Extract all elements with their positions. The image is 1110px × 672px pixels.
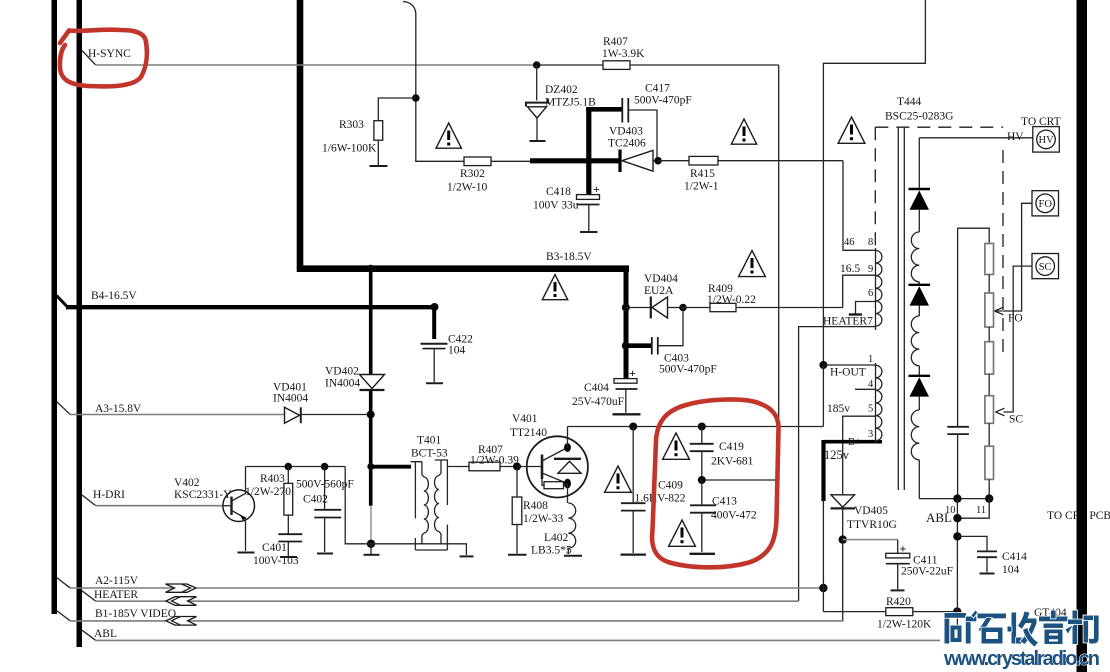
watermark char shou [1008,612,1039,647]
warning triangle near R302 [436,123,461,148]
svg-text:VD403: VD403 [609,126,643,138]
svg-text:125v: 125v [824,448,850,462]
ground bar C414 [980,573,995,575]
resistor R303 (1/6W-100K) [374,121,383,141]
wire H-SYNC diagonal tap [82,51,96,65]
svg-text:VD404: VD404 [644,273,678,285]
junction dot B3 rail / VD402 [367,265,375,273]
svg-text:ABL: ABL [94,628,117,640]
wire R420 left [823,611,885,613]
warning triangle near B3 [542,275,567,300]
wire flyback pin 5 stub and 185v riser [843,416,876,494]
svg-text:BCT-53: BCT-53 [411,448,448,460]
wire R303 bottom lead [377,140,379,165]
ground bar R303 [370,165,388,167]
junction dot VD405 output [839,535,847,543]
transformer T401 (BCT-53) [371,460,466,555]
wire feedback riser x=778 [778,65,780,480]
svg-text:1/2W-10: 1/2W-10 [447,182,487,194]
ground bar DZ402 [530,140,546,142]
svg-text:VD405: VD405 [854,505,888,517]
wire R407 to feedback riser [630,64,779,66]
svg-text:500V-470pF: 500V-470pF [659,364,717,376]
transistor V402 (KSC2331-Y) [223,467,255,552]
right edge thick bus bar [1077,0,1088,672]
wire A3-15.8V rail (gray) [70,414,285,416]
watermark char shi [978,614,1007,644]
diode VD401 (IN4004) [285,407,371,423]
svg-text:T444: T444 [897,96,922,108]
svg-text:1/2W-0.22: 1/2W-0.22 [707,294,756,306]
svg-text:11: 11 [976,505,986,516]
svg-text:FO: FO [1039,199,1053,210]
wire R302 to thick node [491,160,531,162]
svg-text:R420: R420 [886,596,911,608]
HV diode D3 [909,366,931,410]
capacitor C409 (1.6KV-822) [621,427,646,554]
resistor R420 (1/2W-120K) [886,608,913,616]
warning triangle near R415 [731,119,756,144]
connector FO [1032,191,1059,216]
svg-text:V402: V402 [174,477,200,489]
svg-text:R403: R403 [260,473,285,485]
svg-text:HV: HV [1039,135,1055,146]
svg-text:1/2W-1: 1/2W-1 [684,181,719,193]
arrow FO wiper [995,307,1004,315]
svg-text:SC: SC [1039,262,1052,273]
wire Rb-Rc [988,327,990,342]
junction dot R420/ABL [953,607,961,615]
arrow B1 (left) [166,617,197,626]
svg-text:C401: C401 [262,542,287,554]
wire ABL rail [96,639,941,641]
ground bar C422 [426,382,443,384]
inductor L402 (LB3.5*5) [568,503,575,554]
svg-text:B3-18.5V: B3-18.5V [546,251,592,263]
zener diode DZ402 [526,99,548,140]
warning triangle near C419 [663,433,690,459]
red annotation circle around C419/C413 [652,399,778,567]
capacitor C401 (100V-103) [278,534,302,556]
junction dot T401 drive node [367,463,374,470]
thick wire B+ down leg [821,440,825,501]
wire node to R409 [683,307,710,309]
svg-text:B1-185V VIDEO: B1-185V VIDEO [95,608,176,620]
svg-text:V401: V401 [512,413,538,425]
svg-text:1/6W-100K: 1/6W-100K [322,143,377,155]
capacitor C402 (500V-560pF) [314,467,341,553]
arrow HEATER (left) [166,597,197,606]
svg-text:500V-560pF: 500V-560pF [296,479,354,491]
resistor R302 (1/2W-10) [464,157,491,166]
junction dot C402 top [321,463,329,471]
ground bar C409 [621,553,647,555]
svg-text:H-DRI: H-DRI [93,489,125,501]
wire C411 top (gray) [843,539,898,541]
wire C422 top lead (thick) [432,307,436,339]
junction dot R408 top [513,463,521,471]
svg-text:100V-103: 100V-103 [253,555,299,567]
svg-text:TTVR10G: TTVR10G [847,519,897,531]
divider resistor Ra [985,244,994,275]
thick wire T401 primary stub [371,465,411,469]
svg-text:100V 33u: 100V 33u [533,200,579,212]
junction dot R303 node [412,94,420,102]
junction dot B3/VD404 branch [622,304,630,312]
wire feedback bottom to C419/C413 node [702,479,779,481]
wire B4-16.5V thick rail [66,305,435,309]
resistor R403 (1/2W-270) [284,467,293,534]
wire V401 collector rail to H-OUT [568,426,824,428]
bus bar 2 (left power bus) [77,0,83,647]
capacitor C411 (250V-22uF) electrolytic [886,540,910,590]
svg-text:1/2W-120K: 1/2W-120K [877,619,932,631]
terminal bar pin 6 [849,313,862,315]
resistor R409 (1/2W-0.22) [710,303,736,311]
wire FO tap [1003,203,1033,311]
ground bar L402 [564,555,582,557]
transistor V401 (TT2140) [527,427,588,504]
wire A2 diagonal tap [57,578,71,588]
svg-text:+: + [629,366,636,380]
wire VD403 node to R415 [658,160,689,162]
divider resistor Rd (screen pot) [985,396,994,424]
wire flyback pin 4 stub [855,388,876,390]
flyback core lines [898,128,904,490]
junction dot C409 top [629,423,637,431]
wire T401 secondary to R407 [448,466,469,468]
svg-text:www.crystalradio.cn: www.crystalradio.cn [943,648,1100,670]
svg-text:MTZJ5.1B: MTZJ5.1B [545,97,596,109]
resistor R408 (1/2W-33) [512,467,522,554]
svg-text:+: + [593,182,600,196]
svg-text:B+: B+ [848,437,861,448]
svg-text:1.6KV-822: 1.6KV-822 [635,493,686,505]
svg-text:2KV-681: 2KV-681 [711,456,754,468]
wire V402 collector rail [246,466,346,468]
junction dot ABL/C414 [953,532,961,540]
svg-text:TT2140: TT2140 [510,427,547,439]
junction dot C419/C413 [698,476,706,484]
svg-text:A3-15.8V: A3-15.8V [95,403,142,415]
red annotation circle around H-SYNC [60,30,147,87]
svg-text:9: 9 [868,264,873,275]
divider resistor Rc [985,342,994,374]
svg-text:IN4004: IN4004 [325,378,360,390]
svg-text:TC2406: TC2406 [608,138,646,150]
divider resistor Re [985,446,994,479]
svg-text:B4-16.5V: B4-16.5V [91,290,137,302]
svg-text:HEATER: HEATER [94,589,138,601]
svg-text:R302: R302 [460,168,485,180]
wire H-DRI diagonal tap [82,495,96,506]
svg-text:C419: C419 [719,441,744,453]
wire VD405 node to B1 bus riser [842,540,844,622]
wire A2-115V rail [70,587,823,589]
svg-text:3: 3 [868,429,873,440]
svg-text:5: 5 [868,404,873,415]
HV winding section 1 [911,232,919,282]
svg-text:EU2A: EU2A [644,285,674,297]
HV rectifier diode chain top lead [918,138,920,189]
divider resistor Rb (focus pot) [985,293,994,327]
capacitor C422 (104) [421,344,448,382]
HV winding section 2 [911,316,919,366]
wire H-OUT node to collector rail [822,365,824,427]
svg-text:H-OUT: H-OUT [830,367,866,379]
ground bar return node [364,554,380,556]
junction dot H-OUT node [819,361,827,369]
wire flyback pin 1 stub [823,364,876,366]
thick stub to C403 [626,343,651,348]
ground bar C413 [690,553,716,555]
thick wire VD402 to VD401 node [369,390,373,415]
warning triangle near C409 [605,466,632,492]
svg-text:HV: HV [1007,131,1024,143]
svg-text:A2-115V: A2-115V [95,575,139,587]
junction dot R403 top [285,463,293,471]
flyback secondary winding lower (pins 1-4-5-3) [876,363,882,443]
svg-text:1/2W-0.39: 1/2W-0.39 [470,455,519,467]
connector HV [1033,127,1060,153]
svg-text:C413: C413 [712,496,737,508]
wire flyback pin 8 stub [843,161,876,251]
svg-text:8: 8 [868,237,873,248]
svg-text:R407: R407 [603,36,628,48]
wire Re bottom [988,479,990,498]
watermark char ji [1066,611,1099,645]
ground bar C402 [317,553,333,555]
svg-text:1/2W-270: 1/2W-270 [245,486,291,498]
wire HEATER rail [96,600,799,602]
svg-text:DZ402: DZ402 [545,84,578,96]
resistor R407 (1W-3.9K) [603,61,630,70]
wire ABL diagonal tap [82,630,96,640]
wire top hook to R303 node [403,2,464,162]
diode VD403 (TC2406) [620,150,658,173]
wire B4 diagonal tap (thick) [57,296,68,307]
wire gray segment to primary return [370,506,372,544]
svg-text:R408: R408 [523,500,548,512]
ground bar C401 [280,556,297,558]
wire B1-185V rail [70,620,843,622]
watermark char kuang [945,611,978,644]
capacitor C418 (100V 33u) electrolytic [577,182,601,231]
junction dot pin 10 [953,494,961,502]
wire H-SYNC node to R407 [537,64,603,66]
svg-text:FO: FO [1008,313,1023,325]
arrow A2 (right) [166,584,197,592]
svg-text:LB3.5*5: LB3.5*5 [531,545,572,557]
thick B3 vertical wire to C404 [624,266,629,379]
wire R409 to flyback pin 9 riser [736,275,876,307]
wire R407 to V401 base [500,466,542,468]
svg-text:6: 6 [868,288,873,299]
svg-text:C414: C414 [1002,551,1027,563]
svg-text:L402: L402 [544,532,569,544]
thick wire node to T401 stub [369,415,373,506]
warning triangle near T444 [838,117,865,143]
wire A3 diagonal tap [57,402,71,415]
capacitor C404 (25V-470uF) electrolytic [614,366,638,413]
resistor R415 (1/2W-1) [689,156,718,165]
svg-text:IN4004: IN4004 [273,393,308,405]
wire DZ402 top lead [536,65,538,101]
svg-text:400V-472: 400V-472 [711,510,757,522]
svg-text:104: 104 [448,345,466,357]
ground bar C418 [580,231,598,233]
watermark char yin [1039,611,1068,645]
ground bar C404 [613,413,641,415]
capacitor C417 (500V-470pF) [622,98,657,161]
svg-text:1W-3.9K: 1W-3.9K [602,48,645,60]
svg-text:25V-470uF: 25V-470uF [572,396,624,408]
svg-text:SC: SC [1009,414,1023,426]
svg-text:16.5: 16.5 [840,263,860,275]
wire SC tap [1004,266,1033,412]
svg-text:VD402: VD402 [325,366,359,378]
junction dot pin 11 top [985,494,993,502]
capacitor C414 (104) [957,536,997,572]
HV diode D1 [909,189,931,232]
wire R420 right [913,611,957,613]
svg-text:KSC2331-Y: KSC2331-Y [174,489,232,501]
svg-text:C417: C417 [645,83,670,95]
wire R415 to riser [718,160,843,162]
thick wire VD402 riser [369,269,373,374]
flyback bottom rail [919,498,989,500]
junction dot VD403 output [654,157,662,165]
svg-text:H-SYNC: H-SYNC [88,48,131,60]
wire to VD404 [626,307,651,309]
svg-text:C409: C409 [658,480,683,492]
connector SC [1032,254,1059,279]
wire HV output [919,137,1033,139]
wire H-SYNC horizontal (gray) [96,64,537,66]
junction dot A2/B+ [819,584,827,592]
focus divider top wire [958,228,990,243]
ground bar R408 [508,554,527,556]
wire H-DRI rail (gray) [96,505,225,507]
HV winding section 3 [911,410,919,460]
HV chain bottom lead [918,460,920,499]
wire top-right drop (x=925) [823,0,925,365]
junction dot H-SYNC/DZ402 [533,61,541,69]
capacitor C419 (2KV-681) [690,427,714,481]
capacitor C413 (400V-472) [690,480,716,552]
ground bar V402 emitter [238,552,255,554]
svg-text:C402: C402 [303,494,328,506]
warning triangle near C413 [669,520,696,546]
wire Ra-Rb [988,275,990,294]
flyback secondary winding upper (pins 8-9-6-7) [876,248,882,330]
junction dot VD404/R409/C403 [679,304,687,312]
bus bar 1 (left power bus) [52,0,58,614]
wire B1 diagonal tap [57,611,71,621]
svg-text:ABL: ABL [926,510,952,525]
diode VD404 (EU2A) [651,297,683,319]
diode VD402 (IN4004) [360,375,385,391]
svg-text:1: 1 [868,354,873,365]
wire Rd-Re [988,423,990,446]
svg-text:R415: R415 [690,168,715,180]
HV diode D2 [909,282,931,316]
svg-text:BSC25-0283G: BSC25-0283G [885,111,953,123]
junction dot ABL/pin11 [953,514,961,522]
wire return node ground lead [370,544,372,554]
svg-text:C418: C418 [546,186,571,198]
junction dot C403 branch [622,342,630,350]
bar over TO CRT PCB (right bus overlay) [1077,505,1088,523]
wire A2 node riser to B+ [822,501,824,588]
svg-text:250V-22uF: 250V-22uF [901,566,953,578]
junction dot B4/C422 [431,303,439,311]
svg-text:C404: C404 [584,382,609,394]
internal capacitor line [947,228,969,498]
capacitor C403 (500V-470pF) [652,308,683,355]
wire V402 collector net to return node [345,467,371,544]
wire ABL riser [956,499,958,641]
diode VD405 (TTVR10G) [831,495,856,540]
junction dot VD401/VD402 node [367,411,375,419]
thick wire B+ to pin 3 [824,440,883,444]
warning triangle near R409 [739,251,766,277]
svg-text:104: 104 [1002,564,1020,576]
wire R303 branch [378,98,416,121]
wire pin 11 link [957,499,989,519]
svg-text:1/2W-33: 1/2W-33 [523,513,563,525]
wire flyback pin 6 stub [856,302,877,314]
resistor R407 (1/2W-0.39) [469,462,500,471]
ground bar T401 secondary [460,555,474,557]
svg-text:46: 46 [844,237,855,248]
svg-text:T401: T401 [417,435,442,447]
wire A2 node to R420 [822,588,824,612]
ground bar C411 [891,589,905,591]
thick wire cross at VD403/C418 [530,107,622,196]
svg-text:R303: R303 [339,119,364,131]
wire Rc-Rd [988,374,990,396]
arrow SC wiper [996,408,1005,416]
svg-text:HEATER7: HEATER7 [823,316,873,328]
svg-text:185v: 185v [827,403,850,415]
thick wire L from top to B3 rail [300,0,629,269]
svg-text:500V-470pF: 500V-470pF [634,95,692,107]
svg-text:4: 4 [868,379,874,390]
transformer T444 dashed outline [875,127,1003,352]
wire HEATER diagonal tap [82,591,96,601]
wire HEATER pin 7 line [799,327,876,601]
junction dot C419 top [698,423,706,431]
junction dot primary return [367,540,375,548]
